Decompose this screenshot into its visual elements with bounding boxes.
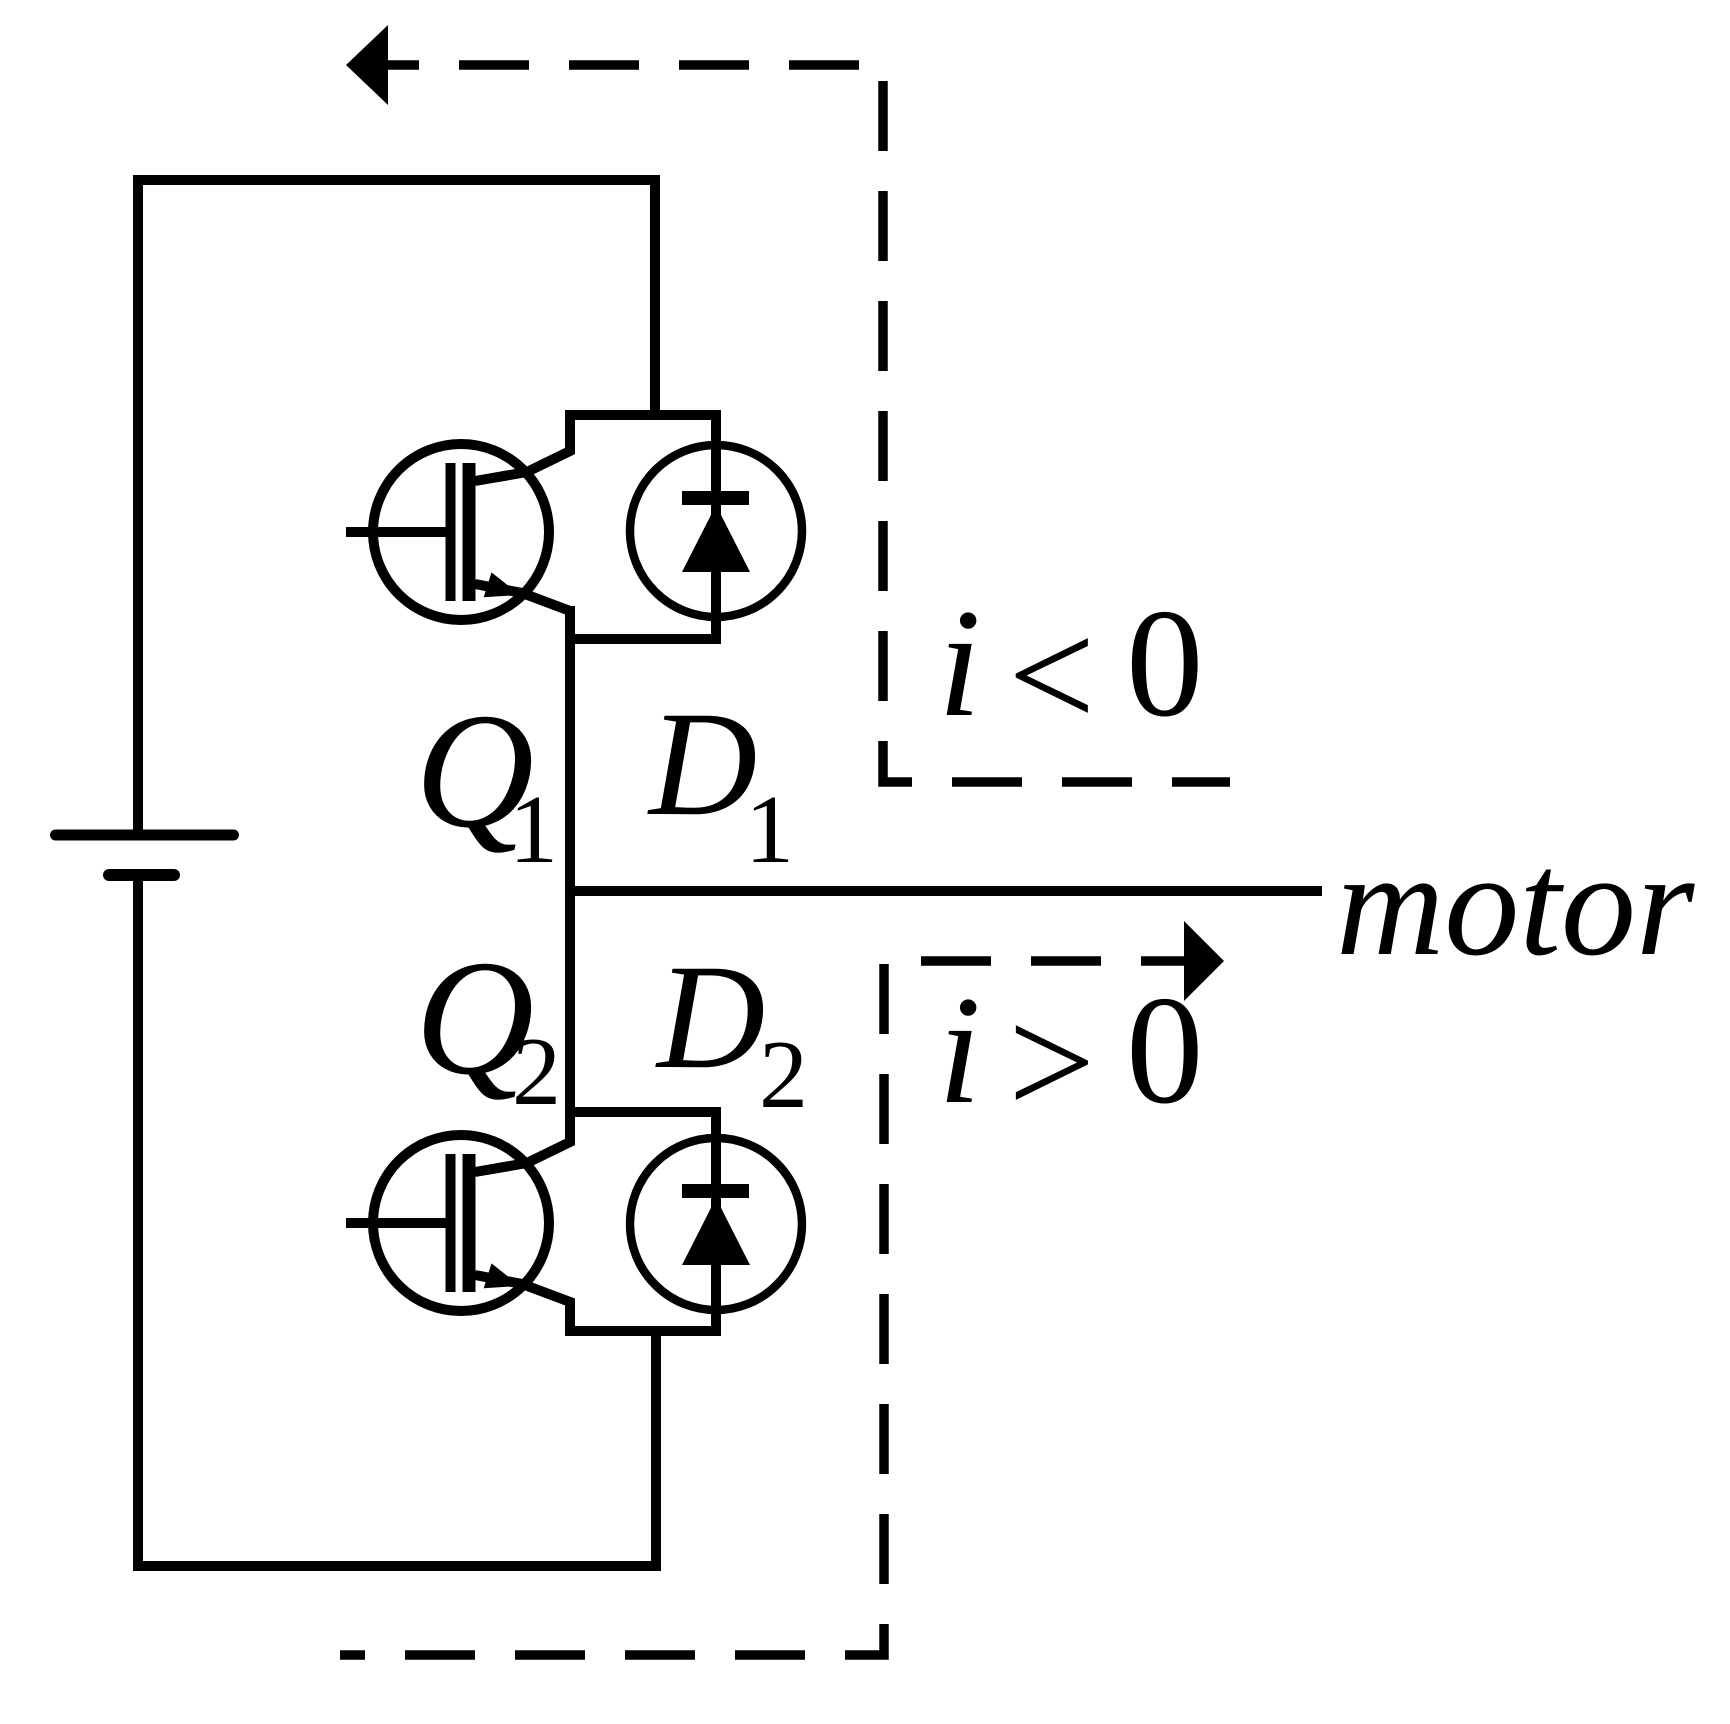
wire: mid rail Q1 emitter to Q2 collector [565,606,575,1116]
wire: Q2 collector lead + block left top [475,1107,570,1172]
svg-text:0: 0 [1126,964,1204,1136]
svg-text:>: > [1008,976,1095,1148]
wire: Q1 block top edge [565,410,716,420]
arrowhead i<0 pointing left [346,25,388,105]
D2 anode triangle [682,1198,750,1265]
svg-text:motor: motor [1336,821,1695,987]
wire: Q1 block bottom edge [565,634,716,644]
battery positive plate [56,830,234,841]
transistor Q2 (IGBT) [373,1135,549,1311]
svg-text:D: D [655,934,765,1100]
wire: Q2 block bottom edge [565,1326,716,1336]
dashed current loop i<0 (top) [388,65,1230,782]
svg-text:2: 2 [759,1021,808,1129]
svg-text:D: D [647,681,757,847]
wire: motor output line [570,886,1322,896]
svg-text:1: 1 [509,776,558,884]
wire: Q1 emitter lead + block left bottom [475,584,570,644]
svg-text:i: i [938,964,981,1136]
dashed current loop i>0 (bottom) [340,961,1184,1655]
wire: D1 vertical / block right edge [711,410,721,644]
D1 anode triangle [682,505,750,572]
wire: Q2 block top edge [565,1107,716,1117]
transistor Q1 (IGBT) [373,444,549,620]
wire: Q1 gate lead [346,527,447,537]
Q2 emitter arrowhead [484,1263,520,1288]
wire: Q1 collector lead + block left top [475,410,570,481]
svg-text:1: 1 [745,776,794,884]
diode D2 body [630,1138,802,1310]
svg-text:0: 0 [1126,577,1204,749]
wire: Q2 emitter lead + block left bottom [475,1275,570,1336]
Q1 emitter arrowhead [484,572,520,597]
Q1 gate bars [446,463,456,601]
svg-text:2: 2 [512,1018,561,1126]
diode D1 body [630,445,802,617]
wire: D2 vertical / block right edge [711,1107,721,1336]
wire: battery top to top rail to node wire down to Q1 block [138,180,655,832]
D1 cathode bar [682,491,749,505]
battery negative plate [109,869,174,881]
svg-text:<: < [1008,589,1095,761]
arrowhead i>0 pointing right [1184,921,1224,1001]
wire: Q2 gate lead [346,1218,447,1228]
wire: battery bottom to bottom rail to Q2 output [138,878,656,1566]
Q2 gate bars [446,1154,456,1292]
D2 cathode bar [682,1184,749,1198]
svg-text:i: i [938,577,981,749]
